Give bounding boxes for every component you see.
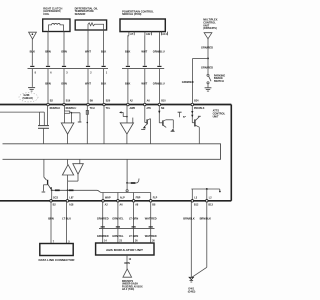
op-amp U1 xyxy=(61,123,74,134)
svg-text:LT GRN: LT GRN xyxy=(129,234,138,238)
svg-text:GRN/RED: GRN/RED xyxy=(201,46,213,50)
right clutch electromagnetic coil box xyxy=(43,19,70,32)
junction node A2 wire xyxy=(126,116,128,118)
svg-text:BLK: BLK xyxy=(30,49,35,53)
PCM pin A22 xyxy=(144,32,146,36)
junction node on B9 wire xyxy=(87,122,89,124)
svg-text:GRN/YEL: GRN/YEL xyxy=(112,216,124,220)
svg-text:WHT: WHT xyxy=(141,49,147,53)
wire BLK from PCM A7 xyxy=(127,35,129,65)
wire U2 output to bus A xyxy=(126,134,128,144)
svg-text:B13: B13 xyxy=(208,203,213,206)
ATTS control unit box outline xyxy=(0,104,231,106)
svg-text:RED/BLK: RED/BLK xyxy=(50,107,61,110)
wire bus B down to Q4 xyxy=(43,159,45,177)
svg-text:B20: B20 xyxy=(106,100,111,103)
pin SCS on bottom edge xyxy=(50,200,53,203)
connector terminal at x=127.9 xyxy=(126,65,130,67)
wire WHT from PCM A22 xyxy=(144,35,146,65)
wire WHT/RED to modulator xyxy=(150,202,152,243)
svg-text:A22: A22 xyxy=(146,33,151,36)
sensor thermistor symbol xyxy=(88,23,104,30)
svg-text:WHT: WHT xyxy=(85,49,91,53)
chassis ground parking brake switch xyxy=(207,84,209,88)
wire BRN/BLK 2 xyxy=(206,202,208,267)
wire BRN to DLC xyxy=(50,202,52,244)
connector terminal at x=103.6 xyxy=(102,65,106,67)
junction node R1 out xyxy=(71,112,73,114)
svg-text:A18: A18 xyxy=(69,203,74,206)
wire bus mid to capacitor xyxy=(43,112,45,126)
svg-text:WHT/RED: WHT/RED xyxy=(145,216,157,220)
pin FRP on bottom edge xyxy=(132,200,135,203)
wire pin B16 down xyxy=(64,106,66,111)
internal right line y189 xyxy=(191,188,219,190)
wire pin B20 down to bus A xyxy=(103,106,105,144)
svg-text:BLK: BLK xyxy=(125,49,130,53)
svg-text:ABS MODULATOR UNIT: ABS MODULATOR UNIT xyxy=(106,248,144,252)
wire ALP pin feed xyxy=(117,193,119,200)
wire LT BLU to DLC xyxy=(66,202,68,244)
wire L87 pin feed xyxy=(66,190,68,199)
connector terminal at x=64 xyxy=(62,65,66,67)
wire BLK pcm below row xyxy=(127,69,129,105)
wire FRP pin feed xyxy=(133,193,135,200)
wire WHT pcm below row xyxy=(144,69,146,105)
connector row line bottom xyxy=(99,227,155,229)
internal bus rectangle xyxy=(3,144,221,160)
pin B9 on top edge xyxy=(87,103,90,106)
wire ORN coil pin2 xyxy=(63,32,65,66)
wire bus to capacitor xyxy=(39,112,41,126)
svg-text:BRN/BLK: BRN/BLK xyxy=(183,216,195,220)
powertrain control module box xyxy=(120,19,165,32)
differential oil temperature sensor box xyxy=(75,20,106,30)
wire pin B10 down with arrow xyxy=(158,106,160,123)
svg-text:HA # (7/24): HA # (7/24) xyxy=(122,288,134,291)
wire BRN/BLK 1 xyxy=(190,202,192,277)
connector terminal at x=144.8 xyxy=(143,65,147,67)
wire BLK from arrow to connector row xyxy=(31,39,33,66)
junction node center xyxy=(126,182,128,184)
wire L2 pin feed xyxy=(206,189,208,200)
svg-text:SCS: SCS xyxy=(53,196,58,199)
wire ORN/BLU below row xyxy=(158,69,160,105)
page-connector arrow A (from another circuit) xyxy=(29,32,37,39)
wire L3 pin feed xyxy=(191,189,193,200)
internal node line y190 xyxy=(52,189,97,191)
svg-text:BRN: BRN xyxy=(48,216,54,220)
parking brake switch xyxy=(207,74,209,76)
op-amp U2 xyxy=(120,123,133,134)
wire WHP pin feed xyxy=(102,193,104,200)
internal bus line left xyxy=(0,111,40,113)
wire branch to ATTS B24 xyxy=(193,57,208,59)
svg-text:PNK/BLK: PNK/BLK xyxy=(194,107,205,110)
wire WHT sensor pin1 xyxy=(87,30,89,66)
svg-text:TCH: TCH xyxy=(90,107,95,110)
page-connector arrow B multiplex xyxy=(204,33,212,39)
ABS modulator unit box xyxy=(96,243,154,255)
transistor Q1 xyxy=(146,119,148,124)
pin A2 on top edge xyxy=(127,103,129,106)
connector terminal at x=48 xyxy=(46,65,50,67)
svg-text:B24: B24 xyxy=(194,100,199,103)
svg-text:AP: AP xyxy=(183,116,187,119)
wire BLK sensor pin2 xyxy=(103,30,105,66)
svg-text:(G402): (G402) xyxy=(188,290,196,293)
transistor Q3 xyxy=(194,119,196,126)
connector terminal at x=88 xyxy=(86,65,90,67)
wire SCS pin feed xyxy=(51,190,53,199)
shield ground G238 xyxy=(28,87,35,89)
right line hook end xyxy=(219,189,221,191)
svg-text:SWITCH: SWITCH xyxy=(214,80,224,83)
wire LT GRN to modulator xyxy=(133,202,135,243)
wire ORN below row xyxy=(63,69,65,105)
svg-text:LT GRN: LT GRN xyxy=(129,216,138,220)
svg-text:SENSOR: SENSOR xyxy=(75,12,86,16)
svg-text:ORN/BLU: ORN/BLU xyxy=(153,49,165,53)
pin ALP on bottom edge xyxy=(117,200,120,203)
svg-text:LT BLU: LT BLU xyxy=(62,216,71,220)
pin B2 on top edge xyxy=(47,103,50,106)
wire GRN/RED to modulator xyxy=(102,202,104,243)
wire GRN/RED from arrow xyxy=(207,39,209,59)
connector terminal at x=32.3 xyxy=(30,65,34,67)
svg-text:B10: B10 xyxy=(161,100,166,103)
resistor R2 vertical xyxy=(86,110,88,114)
wire BLK below row 2 xyxy=(103,69,105,105)
branch with hook xyxy=(127,182,136,184)
svg-text:B12: B12 xyxy=(194,203,199,206)
svg-text:WHP: WHP xyxy=(105,196,111,199)
pin B20 on top edge xyxy=(103,103,106,106)
svg-text:B16: B16 xyxy=(66,100,71,103)
wire Q3 emitter to bus A xyxy=(198,127,200,144)
svg-text:COIL: COIL xyxy=(43,12,50,16)
wire FLP pin feed xyxy=(150,193,152,200)
svg-text:RED/BLU: RED/BLU xyxy=(66,107,77,110)
svg-text:GRN/RED: GRN/RED xyxy=(182,80,194,84)
stub branch with end tick xyxy=(72,112,81,114)
connector bubble on center wire xyxy=(126,184,128,190)
svg-text:ORN: ORN xyxy=(124,262,130,265)
junction node right line xyxy=(206,188,208,190)
coil winding symbol xyxy=(49,23,64,31)
wire WHT below row xyxy=(87,69,89,105)
capacitor C1 xyxy=(38,125,49,127)
wire pin B24 down with arrows xyxy=(191,106,193,123)
transistor Q2 xyxy=(162,120,164,125)
svg-text:(DRIVER'S): (DRIVER'S) xyxy=(203,26,217,30)
junction node Q4 emitter xyxy=(51,189,53,191)
svg-text:ORN/BLU: ORN/BLU xyxy=(153,81,165,85)
svg-text:GRN/RED: GRN/RED xyxy=(97,216,109,220)
svg-text:FRP: FRP xyxy=(136,196,141,199)
Q2 loop arrow and tick xyxy=(171,129,174,131)
wire BRN below row xyxy=(47,69,49,105)
pin B16 on top edge xyxy=(63,103,66,106)
resistor R1 xyxy=(65,111,70,113)
pull-up stub T xyxy=(178,111,182,113)
svg-text:A14: A14 xyxy=(162,33,167,36)
wire ORN/BLU from PCM A14 xyxy=(158,32,160,66)
wire pin A6 down xyxy=(144,106,146,123)
svg-text:TCL: TCL xyxy=(106,107,111,110)
pin WHP on bottom edge xyxy=(102,200,105,203)
wire capacitor to bus A xyxy=(43,128,45,144)
connector terminal at x=159.4 xyxy=(157,65,161,67)
svg-text:BLK: BLK xyxy=(101,49,106,53)
page-connector arrow C fuse box xyxy=(123,269,132,277)
svg-text:NE: NE xyxy=(161,107,165,110)
svg-text:AWD: AWD xyxy=(130,107,136,110)
pin A6 on top edge xyxy=(144,103,147,106)
PCM pin A14 xyxy=(161,32,163,36)
wire pin A2 down xyxy=(126,106,128,123)
wire Q1 collector to bus A xyxy=(149,119,151,144)
wire bus B down center xyxy=(126,159,128,183)
wire diagonal to ground xyxy=(192,267,207,277)
pin FLP on bottom edge xyxy=(149,200,152,203)
pin B10 on top edge xyxy=(158,103,161,106)
wire pin B9 down to bus A xyxy=(86,106,88,144)
svg-text:GRN/RED: GRN/RED xyxy=(201,65,213,69)
wire pin B16 to op-amp input xyxy=(64,113,66,123)
junction node GRN/RED splice xyxy=(207,57,209,59)
svg-text:GRN/YEL: GRN/YEL xyxy=(112,234,124,238)
stub arrow branch left xyxy=(120,111,124,113)
internal node line y192 xyxy=(102,192,151,194)
wire R1 to junction xyxy=(70,111,72,113)
wire BRN coil pin1 xyxy=(47,32,49,66)
connector row line left xyxy=(28,68,109,70)
wire GRN/RED to parking brake switch xyxy=(207,58,209,74)
wire U1 output to bus A xyxy=(67,134,69,144)
ground G401 xyxy=(189,277,193,279)
svg-text:WHT/RED: WHT/RED xyxy=(145,234,157,238)
PCM pin A7 xyxy=(128,32,130,36)
stub U2 input 2 xyxy=(132,118,134,123)
wire BLK below row xyxy=(31,69,33,87)
data link connector box xyxy=(40,244,73,256)
connector row line right xyxy=(122,68,164,70)
diode pair triangles xyxy=(67,159,69,164)
svg-text:ORN: ORN xyxy=(61,49,67,53)
svg-text:(SHIELD): (SHIELD) xyxy=(23,97,34,100)
svg-text:BRN/BLK: BRN/BLK xyxy=(200,216,212,220)
svg-text:BRN: BRN xyxy=(45,49,51,53)
svg-text:GRN/RED: GRN/RED xyxy=(97,234,109,238)
transistor Q4 xyxy=(47,180,49,185)
pin L87 on bottom edge xyxy=(66,200,69,203)
svg-text:ATE: ATE xyxy=(146,107,151,110)
wire GRN/YEL to modulator xyxy=(117,202,119,243)
svg-text:UNIT: UNIT xyxy=(213,114,219,118)
svg-text:L87: L87 xyxy=(69,196,74,199)
wire diode pair down xyxy=(67,181,69,190)
pin L2 on bottom edge xyxy=(206,200,209,203)
wire pin B2 to capacitor xyxy=(47,106,49,126)
wire Q2 collector loop xyxy=(166,119,174,121)
pin L3 on bottom edge xyxy=(191,200,194,203)
svg-text:DATA LINK CONNECTOR: DATA LINK CONNECTOR xyxy=(39,259,75,262)
wire ORN below modulator xyxy=(126,255,128,269)
junction node diode leg xyxy=(67,189,69,191)
pin B24 on top edge xyxy=(191,103,194,106)
svg-text:ALP: ALP xyxy=(120,196,125,199)
svg-text:MODULE (PCM): MODULE (PCM) xyxy=(122,12,141,16)
svg-text:FLP: FLP xyxy=(153,196,158,199)
